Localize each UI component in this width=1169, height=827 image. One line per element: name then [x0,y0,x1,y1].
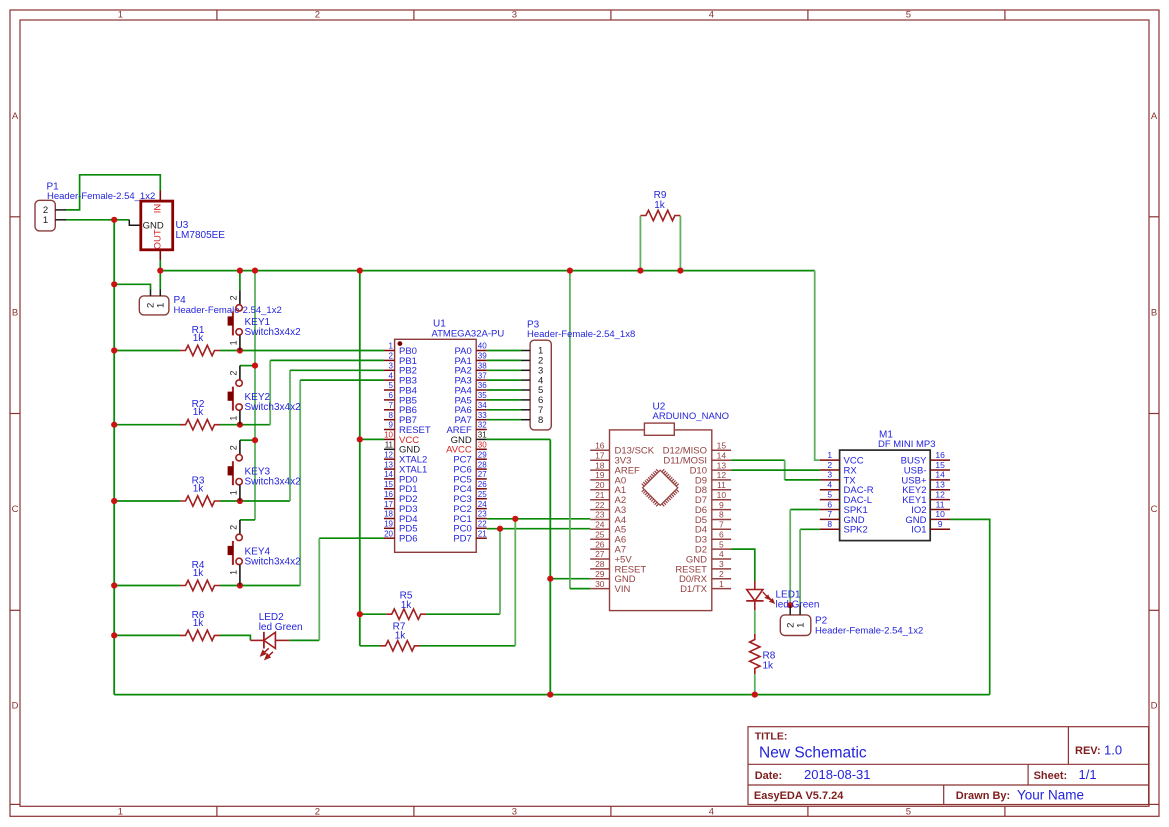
wire R8 to bottom rail [754,674,756,695]
wire KEY2 top elbow [240,365,255,367]
svg-text:23: 23 [478,510,487,519]
wire GND bus to R1 [114,350,180,352]
IC U1 ATMEGA32A-PU [384,319,504,553]
title block [748,727,1149,805]
svg-text:led Green: led Green [259,622,303,633]
svg-text:1: 1 [43,215,48,226]
junction [252,437,258,443]
svg-text:1: 1 [229,416,239,421]
svg-text:ATMEGA32A-PU: ATMEGA32A-PU [432,329,505,340]
switch KEY3 Switch3x4x2 [228,440,301,501]
junction [567,268,573,274]
svg-text:1: 1 [118,806,123,817]
M1 pins left [820,459,840,461]
svg-text:D: D [1151,701,1158,712]
svg-text:LM7805EE: LM7805EE [176,230,226,241]
svg-text:1: 1 [827,450,832,460]
svg-text:Switch3x4x2: Switch3x4x2 [245,327,302,338]
svg-text:5: 5 [906,10,911,21]
junction [237,347,243,353]
svg-text:1: 1 [229,570,239,575]
svg-text:30: 30 [595,579,605,589]
switch KEY1 Switch3x4x2 [228,290,301,350]
junction [237,582,243,588]
junction [252,268,258,274]
wire bottom rail up to M1 GND pin10 [950,519,990,694]
connector P3 Header-Female-2.54_1x8 [521,320,635,430]
svg-text:Switch3x4x2: Switch3x4x2 [245,402,302,413]
svg-text:6: 6 [827,499,832,509]
wire P4.2 to GND bus [114,284,150,289]
svg-text:1k: 1k [193,618,205,629]
svg-text:2: 2 [229,525,239,530]
svg-text:Drawn By:: Drawn By: [956,790,1010,802]
svg-text:24: 24 [478,500,487,509]
svg-text:led Green: led Green [776,600,820,611]
svg-text:10: 10 [384,431,393,440]
svg-text:18: 18 [384,510,393,519]
connector P1 Header-Female-2.54_1x2 [35,182,155,231]
M1 pins right [930,459,950,461]
svg-text:D1/TX: D1/TX [680,584,708,595]
wire R3/KEY3 to U1 PB2 [220,370,384,501]
wire +V top rail [160,270,814,272]
svg-text:1: 1 [156,303,167,308]
wire U1 PA4 to P3 pin5 [487,389,521,391]
svg-text:32: 32 [478,421,487,430]
svg-text:1k: 1k [193,333,205,344]
junction [547,692,553,698]
junction [547,576,553,582]
svg-text:12: 12 [935,489,945,499]
resistor R6 1k [180,610,220,641]
junction [752,692,758,698]
svg-text:7: 7 [719,520,724,530]
svg-text:12: 12 [384,450,393,459]
junction [157,268,163,274]
wire GND bottom rail [114,694,990,696]
svg-text:VIN: VIN [615,584,631,595]
svg-text:3: 3 [389,362,394,371]
svg-text:1k: 1k [401,600,413,611]
junction [637,268,643,274]
svg-text:39: 39 [478,352,487,361]
wire GND bus to R6 [114,634,180,636]
svg-text:1.0: 1.0 [1104,743,1122,758]
svg-text:37: 37 [478,371,487,380]
svg-text:13: 13 [717,460,727,470]
junction [111,217,117,223]
svg-text:Switch3x4x2: Switch3x4x2 [245,556,302,567]
junction [111,347,117,353]
wire VCC to U1 VCC pin10 [360,438,384,440]
svg-text:10: 10 [717,490,727,500]
wire U2 D2 to LED1 [731,549,755,581]
wire LED2 to U1 PD6 [289,538,384,640]
svg-text:16: 16 [595,441,605,451]
wire U1 PC1 to U2 A4 [487,518,590,520]
U2 pins right [712,449,731,451]
switch KEY2 Switch3x4x2 [228,366,301,425]
wire U1 GND pin31 to bottom rail [487,439,551,694]
junction [497,526,503,532]
module U2 ARDUINO_NANO [590,402,731,611]
svg-text:2: 2 [229,371,239,376]
svg-text:20: 20 [595,480,605,490]
junction [357,268,363,274]
svg-text:11: 11 [385,441,394,450]
svg-text:1: 1 [229,340,239,345]
resistor R5 1k [386,591,426,620]
svg-text:19: 19 [384,520,393,529]
wire R5 to PC0 net [426,529,500,615]
wire U1 PA0 to P3 pin1 [487,350,521,352]
svg-text:1k: 1k [654,200,666,211]
wire U1 PA6 to P3 pin7 [487,409,521,411]
svg-text:34: 34 [478,401,487,410]
svg-text:DF MINI MP3: DF MINI MP3 [878,439,936,450]
svg-text:5: 5 [389,381,394,390]
wire LED1 to R8 [754,610,756,634]
wire GND bus left vertical [113,220,115,695]
svg-text:5: 5 [827,489,832,499]
wire U1 PA3 to P3 pin4 [487,379,521,381]
svg-text:17: 17 [384,500,393,509]
svg-text:7: 7 [827,509,832,519]
svg-text:22: 22 [595,500,605,510]
svg-text:8: 8 [719,510,724,520]
U1 pins left [384,350,395,352]
svg-text:D: D [12,701,19,712]
svg-text:EasyEDA V5.7.24: EasyEDA V5.7.24 [754,790,844,802]
junction [787,602,793,608]
wire GND bus to R4 [114,585,180,587]
wire R6 to LED2 [220,635,250,640]
svg-text:38: 38 [478,362,487,371]
svg-text:24: 24 [595,520,605,530]
svg-text:30: 30 [478,441,487,450]
svg-text:15: 15 [717,441,727,451]
svg-text:21: 21 [478,529,487,538]
svg-text:B: B [12,308,18,319]
svg-text:16: 16 [935,450,945,460]
svg-text:15: 15 [384,480,393,489]
regulator U3 LM7805EE [141,191,226,261]
junction [512,516,518,522]
svg-text:4: 4 [709,10,714,21]
svg-text:2: 2 [315,10,320,21]
svg-text:2: 2 [229,295,239,300]
junction [111,281,117,287]
junction [237,498,243,504]
svg-text:1: 1 [795,623,806,628]
svg-text:29: 29 [595,569,605,579]
svg-text:Header-Female-2.54_1x8: Header-Female-2.54_1x8 [527,329,635,340]
wire P1.2 to U3 IN [66,175,160,210]
wire rail down to M1 VCC [815,271,820,461]
junction [111,422,117,428]
svg-text:PD6: PD6 [399,534,417,545]
wire KEY bus vertical [254,271,256,520]
wire KEY3 top elbow [240,439,255,441]
svg-text:21: 21 [595,490,605,500]
svg-text:B: B [1151,308,1157,319]
svg-text:13: 13 [384,460,393,469]
svg-text:2: 2 [719,569,724,579]
wire P1.1 to GND bus [66,219,129,221]
svg-text:1k: 1k [395,631,407,642]
svg-text:1k: 1k [193,568,205,579]
svg-text:4: 4 [709,806,714,817]
wire GND elbow into U3 GND pin [129,220,141,226]
svg-text:1k: 1k [193,484,205,495]
wire R7 to PC1 net [420,519,515,646]
wire VCC to R5 [360,613,386,615]
svg-text:SPK2: SPK2 [844,525,868,536]
svg-text:36: 36 [478,381,487,390]
svg-text:12: 12 [717,470,727,480]
svg-text:REV:: REV: [1075,745,1101,757]
resistor R7 1k [380,622,420,652]
svg-text:Header-Female-2.54_1x2: Header-Female-2.54_1x2 [174,305,282,316]
svg-text:6: 6 [719,529,724,539]
svg-text:3: 3 [512,10,517,21]
svg-text:25: 25 [478,490,487,499]
svg-text:8: 8 [827,519,832,529]
svg-text:IO1: IO1 [911,525,926,536]
svg-text:14: 14 [935,470,945,480]
resistor R9 1k [640,190,680,221]
svg-text:9: 9 [719,500,724,510]
svg-text:29: 29 [478,450,487,459]
wire R9 left leg [639,216,641,271]
svg-text:C: C [12,504,19,515]
wire R9 right leg [679,216,681,271]
svg-text:14: 14 [717,450,727,460]
svg-text:40: 40 [478,342,487,351]
svg-text:5: 5 [906,806,911,817]
junction [237,422,243,428]
wire VCC to R7 [360,645,380,647]
svg-text:TITLE:: TITLE: [755,731,788,743]
svg-text:1: 1 [719,579,724,589]
svg-text:26: 26 [595,539,605,549]
svg-text:3: 3 [512,806,517,817]
LED LED2 led Green [250,612,302,659]
junction [677,268,683,274]
wire U2 D10 to M1 RX [731,469,820,471]
resistor R4 1k [180,560,220,591]
svg-text:1: 1 [229,490,239,495]
resistor R8 1k [750,634,776,674]
svg-text:13: 13 [935,480,945,490]
svg-text:19: 19 [595,470,605,480]
junction [111,498,117,504]
svg-text:9: 9 [938,519,943,529]
wire U1 PA5 to P3 pin6 [487,399,521,401]
svg-text:9: 9 [389,421,394,430]
svg-text:4: 4 [827,480,832,490]
svg-text:35: 35 [478,391,487,400]
svg-text:4: 4 [389,371,394,380]
svg-text:1k: 1k [763,661,775,672]
svg-text:1k: 1k [193,407,205,418]
wire U1 PC0 to U2 A5 [487,528,590,530]
svg-text:7: 7 [389,401,394,410]
svg-text:26: 26 [478,480,487,489]
svg-text:31: 31 [478,431,487,440]
wire KEY4 top elbow [240,519,255,521]
svg-text:Your Name: Your Name [1017,788,1084,803]
svg-text:5: 5 [719,539,724,549]
svg-text:C: C [1151,504,1158,515]
svg-text:OUT: OUT [153,229,164,249]
resistor R1 1k [180,325,220,356]
module M1 DF MINI MP3 [820,430,950,541]
junction [111,582,117,588]
resistor R2 1k [180,399,220,430]
wire rail to U2 VIN [570,271,590,589]
wire U3 OUT down to rail [159,260,161,270]
svg-text:11: 11 [717,480,726,490]
svg-text:A: A [12,111,19,122]
wire U2 GND pin29 to GND vertical [550,578,590,580]
svg-text:3: 3 [719,559,724,569]
svg-text:Sheet:: Sheet: [1034,770,1068,782]
junction [357,436,363,442]
switch KEY4 Switch3x4x2 [228,520,301,586]
svg-text:1: 1 [118,10,123,21]
wire U2 D11/MOSI to M1 TX [731,460,820,480]
resistor R3 1k [180,476,220,507]
LED LED1 led Green [746,581,819,611]
svg-text:27: 27 [478,470,487,479]
svg-text:28: 28 [478,460,487,469]
svg-text:1: 1 [389,342,394,351]
svg-text:8: 8 [389,411,394,420]
svg-text:2: 2 [229,445,239,450]
svg-text:28: 28 [595,559,605,569]
svg-text:2: 2 [315,806,320,817]
wire U1 PA2 to P3 pin3 [487,369,521,371]
junction [357,611,363,617]
svg-text:ARDUINO_NANO: ARDUINO_NANO [653,411,730,422]
svg-text:15: 15 [935,460,945,470]
svg-text:2: 2 [827,460,832,470]
wire KEY1 top to rail [239,271,241,291]
U2 pins left [590,449,609,451]
svg-text:6: 6 [389,391,394,400]
svg-text:4: 4 [719,549,724,559]
svg-text:Date:: Date: [755,770,783,782]
svg-text:A: A [1151,111,1158,122]
svg-text:Header-Female-2.54_1x2: Header-Female-2.54_1x2 [47,191,155,202]
wire R2/KEY2 to U1 PB1 [220,360,384,424]
wire VCC vertical [359,271,361,646]
wire U1 PA1 to P3 pin2 [487,359,521,361]
wire GND bus to R3 [114,500,180,502]
svg-text:11: 11 [936,499,945,509]
wire M1 SPK1 to P2.2 [790,510,820,606]
svg-text:16: 16 [384,490,393,499]
wire U1 PA7 to P3 pin8 [487,419,521,421]
svg-text:New Schematic: New Schematic [759,745,867,762]
svg-text:2: 2 [389,352,394,361]
svg-text:PD7: PD7 [453,534,471,545]
svg-text:3: 3 [827,470,832,480]
connector P4 Header-Female-2.54_1x2 [139,290,281,317]
svg-text:23: 23 [595,510,605,520]
svg-text:Switch3x4x2: Switch3x4x2 [245,477,302,488]
wire rail to P4.1 [159,271,161,290]
junction [111,632,117,638]
svg-text:14: 14 [384,470,393,479]
U1 pins right [476,350,487,352]
svg-text:18: 18 [595,460,605,470]
svg-text:2018-08-31: 2018-08-31 [804,767,871,782]
connector P2 Header-Female-2.54_1x2 [780,605,923,636]
svg-text:IN: IN [153,204,164,214]
svg-text:20: 20 [384,529,393,538]
wire M1 SPK2 to P2.1 [800,529,820,605]
svg-text:25: 25 [595,529,605,539]
svg-text:33: 33 [478,411,487,420]
junction [237,268,243,274]
svg-text:Header-Female-2.54_1x2: Header-Female-2.54_1x2 [815,626,923,637]
wire R4/KEY4 to U1 PB3 [220,380,384,585]
wire R1 to U1 PB0 [220,350,384,352]
svg-text:17: 17 [595,450,605,460]
svg-text:22: 22 [478,520,487,529]
wire GND bus to R2 [114,424,180,426]
svg-text:10: 10 [935,509,945,519]
svg-text:8: 8 [538,415,543,426]
svg-text:27: 27 [595,549,605,559]
svg-text:1/1: 1/1 [1079,767,1097,782]
junction [252,363,258,369]
